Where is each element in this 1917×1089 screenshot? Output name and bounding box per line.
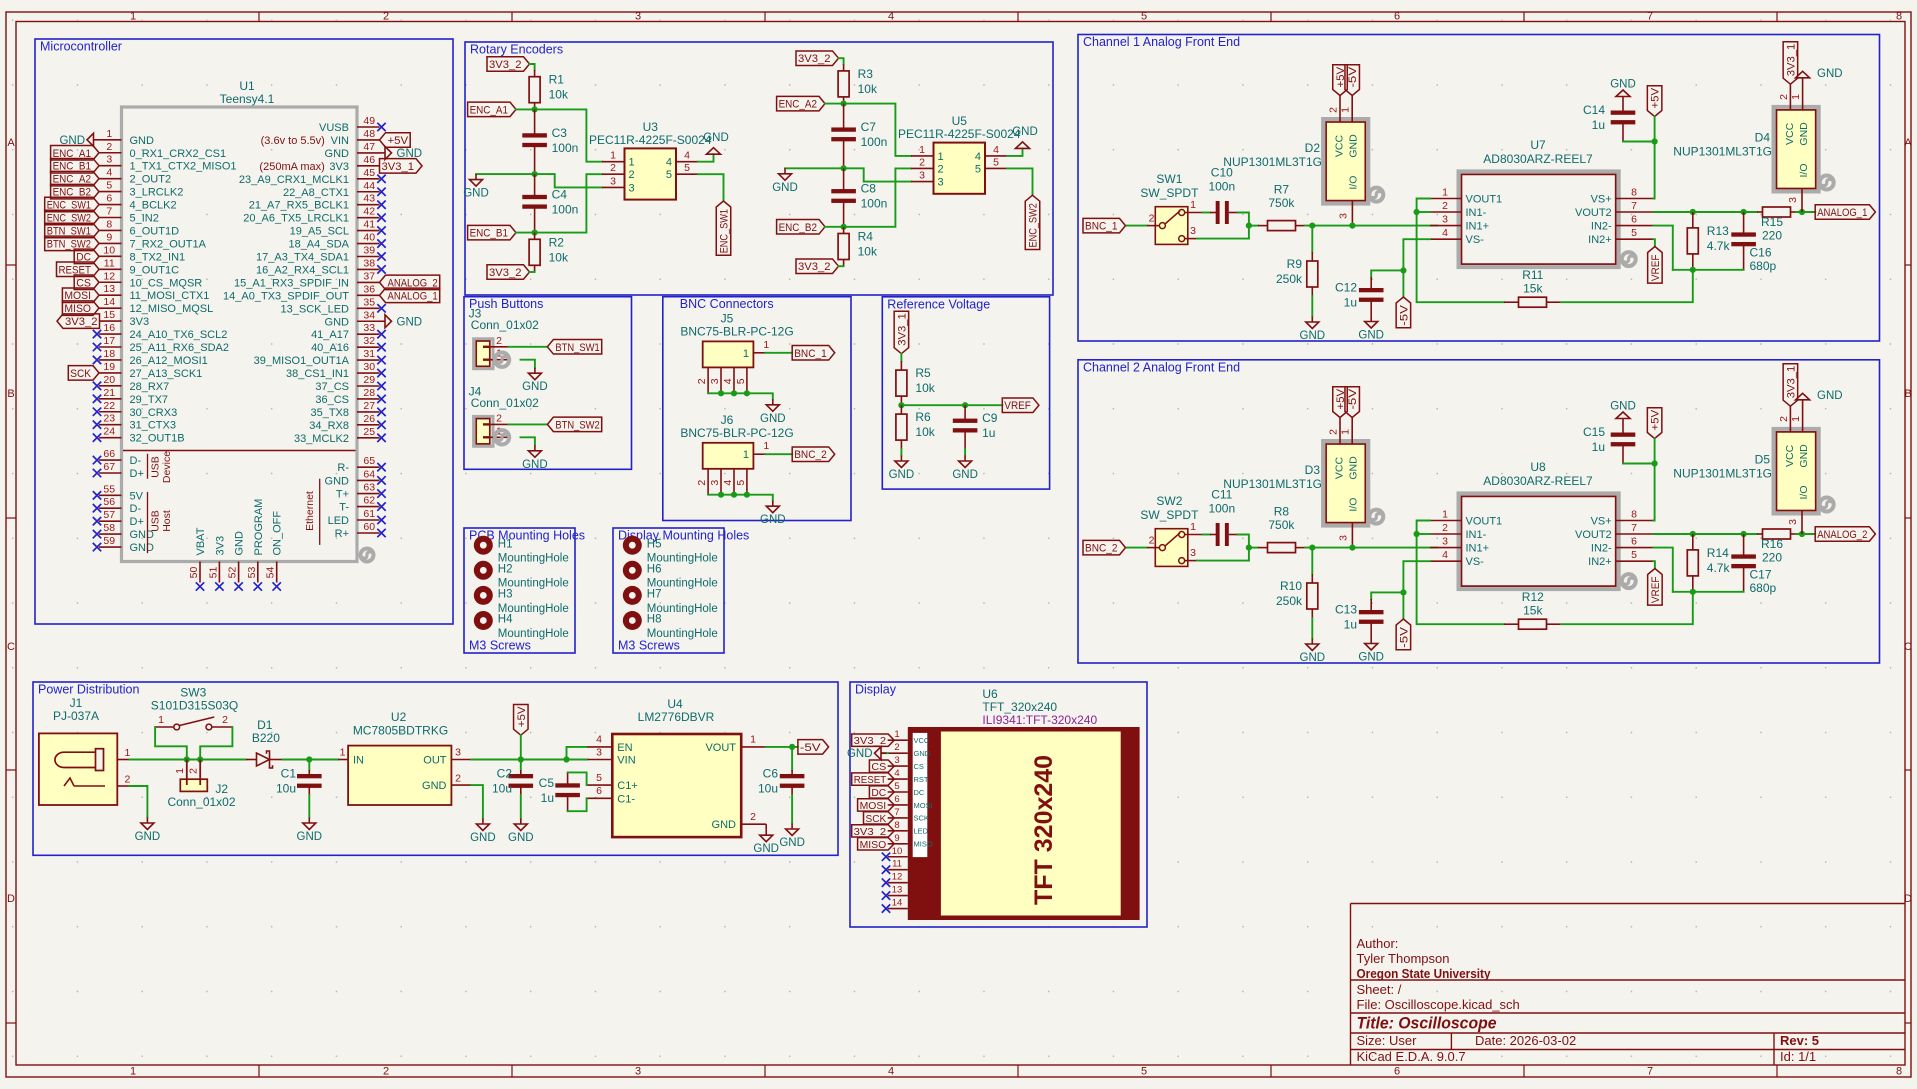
svg-text:IN: IN bbox=[353, 755, 364, 767]
svg-text:D1: D1 bbox=[257, 718, 273, 732]
wire C1 to gnd bbox=[308, 795, 310, 818]
svg-text:3: 3 bbox=[1337, 535, 1349, 541]
junction C17 top bbox=[1741, 531, 1747, 537]
junction D3 pin3 bbox=[1349, 545, 1355, 551]
U6 pin 4 RST bbox=[888, 778, 908, 780]
junction ENC_B bbox=[532, 230, 538, 236]
U1 pin 16 24_A10_TX6_SCL2 bbox=[99, 333, 122, 335]
svg-text:36: 36 bbox=[363, 283, 375, 295]
svg-text:ILI9341:TFT-320x240: ILI9341:TFT-320x240 bbox=[982, 713, 1097, 727]
hier label MISO at U6 pin 9 bbox=[858, 838, 895, 850]
junction J5 rail bbox=[731, 390, 737, 396]
svg-text:D3: D3 bbox=[1305, 463, 1321, 477]
svg-text:C13: C13 bbox=[1335, 603, 1357, 617]
power flag VREF bbox=[1648, 247, 1663, 284]
wire C10 to junction bbox=[1238, 213, 1249, 239]
svg-text:R5: R5 bbox=[915, 366, 931, 380]
junction after input cap bbox=[1246, 545, 1252, 551]
svg-text:Oregon State University: Oregon State University bbox=[1357, 966, 1492, 981]
junction ENC_A bbox=[532, 106, 538, 112]
wire R7 to amp bbox=[1305, 225, 1437, 227]
svg-text:1: 1 bbox=[1190, 199, 1196, 211]
svg-text:1: 1 bbox=[938, 151, 944, 163]
svg-text:Conn_01x02: Conn_01x02 bbox=[471, 396, 539, 410]
capacitor C5 1u flying bbox=[567, 772, 569, 787]
svg-text:R+: R+ bbox=[335, 528, 349, 540]
no-connect U1 pin 29 bbox=[377, 382, 385, 390]
svg-text:6_OUT1D: 6_OUT1D bbox=[130, 225, 180, 237]
svg-text:VCC: VCC bbox=[1334, 134, 1346, 157]
svg-text:2: 2 bbox=[919, 156, 925, 168]
U1 pin 26 34_RX8 bbox=[357, 424, 380, 426]
svg-text:1u: 1u bbox=[1344, 618, 1357, 632]
SW3 pin 1 bbox=[155, 726, 174, 728]
capacitor C3 100n bbox=[534, 109, 536, 137]
svg-text:J1: J1 bbox=[70, 696, 83, 710]
wire R15 to ANALOG_1 bbox=[1796, 211, 1815, 213]
svg-text:C: C bbox=[1904, 641, 1912, 653]
svg-text:1: 1 bbox=[743, 348, 749, 360]
U1 pin 57 D+ USB Host bbox=[99, 520, 122, 522]
svg-text:RST: RST bbox=[914, 775, 929, 784]
svg-text:GND: GND bbox=[1012, 126, 1038, 138]
svg-text:R4: R4 bbox=[858, 230, 874, 244]
svg-text:30: 30 bbox=[363, 361, 375, 373]
svg-text:13_SCK_LED: 13_SCK_LED bbox=[281, 303, 350, 315]
hier label ENC_SW1 at U1 pin 6 bbox=[45, 197, 99, 212]
svg-text:MISO: MISO bbox=[914, 840, 933, 849]
power GND at U1 pin 47 bbox=[380, 152, 386, 154]
svg-text:LED: LED bbox=[914, 827, 929, 836]
U1 pin 53 PROGRAM bottom bbox=[257, 562, 259, 583]
U3 pin 1 bbox=[602, 161, 625, 163]
svg-text:43: 43 bbox=[363, 193, 375, 205]
no-connect U1 pin 30 bbox=[377, 369, 385, 377]
svg-text:IN2+: IN2+ bbox=[1588, 556, 1612, 568]
svg-text:B: B bbox=[7, 388, 14, 400]
resistor R10 250k shunt bbox=[1311, 548, 1313, 574]
hier label CS at U6 pin 3 bbox=[869, 760, 894, 772]
svg-text:MOSI: MOSI bbox=[860, 800, 887, 812]
svg-text:ON_OFF: ON_OFF bbox=[272, 511, 284, 556]
svg-text:4: 4 bbox=[684, 150, 690, 162]
svg-text:3V3_1: 3V3_1 bbox=[1785, 44, 1797, 76]
svg-text:VREF: VREF bbox=[1650, 254, 1662, 281]
svg-text:VS-: VS- bbox=[1466, 234, 1485, 246]
resistor R12 15k feedback bbox=[1504, 623, 1519, 625]
D3 pin 1 to -5V bbox=[1351, 418, 1353, 445]
svg-text:SW3: SW3 bbox=[180, 686, 206, 700]
svg-text:1: 1 bbox=[743, 449, 749, 461]
svg-text:7: 7 bbox=[894, 807, 899, 818]
svg-text:C9: C9 bbox=[982, 411, 998, 425]
wire pin5 to ENC_SW bbox=[1007, 168, 1033, 195]
svg-text:1: 1 bbox=[610, 150, 616, 162]
svg-text:28: 28 bbox=[363, 387, 375, 399]
svg-text:6: 6 bbox=[894, 794, 899, 805]
global label 3V3_2 at U1 pin 15 bbox=[57, 314, 100, 329]
svg-text:6: 6 bbox=[1631, 536, 1637, 548]
svg-text:GND: GND bbox=[889, 469, 915, 481]
connector J3 body bbox=[474, 339, 493, 369]
svg-text:TFT 320x240: TFT 320x240 bbox=[1030, 755, 1058, 905]
svg-text:BNC75-BLR-PC-12G: BNC75-BLR-PC-12G bbox=[680, 426, 793, 440]
U1 pin 4 2_OUT2 bbox=[99, 178, 122, 180]
svg-text:GND: GND bbox=[1610, 79, 1636, 91]
svg-text:1: 1 bbox=[1790, 94, 1802, 100]
svg-text:D4: D4 bbox=[1755, 131, 1771, 145]
junction D2 pin3 bbox=[1349, 223, 1355, 229]
J4 pin 2 bbox=[490, 423, 509, 425]
hier label BTN_SW1 at U1 pin 8 bbox=[45, 223, 99, 238]
wire IN2+ to VREF bbox=[1653, 239, 1655, 246]
global label ENC_B bbox=[777, 220, 825, 235]
power GND at U1 pin 34 bbox=[380, 320, 386, 322]
junction J6 rail bbox=[718, 492, 724, 498]
capacitor C11 100n series bbox=[1210, 534, 1219, 536]
D4 pin 1 to GND bbox=[1802, 78, 1804, 110]
svg-text:GND: GND bbox=[522, 459, 548, 471]
svg-text:C1: C1 bbox=[281, 767, 297, 781]
svg-text:20: 20 bbox=[103, 374, 115, 386]
svg-text:PEC11R-4225F-S0024: PEC11R-4225F-S0024 bbox=[589, 133, 712, 147]
svg-text:3: 3 bbox=[1190, 547, 1196, 559]
svg-text:GND: GND bbox=[130, 542, 155, 554]
J1 pin 2 bbox=[117, 785, 129, 787]
U1 pin 64 GND Ethernet bbox=[357, 479, 380, 481]
wire pin4 to GND bbox=[1007, 148, 1023, 156]
svg-text:4: 4 bbox=[975, 151, 981, 163]
junction gnd rail bbox=[532, 171, 538, 177]
U2 pin 1 IN bbox=[338, 759, 348, 761]
svg-text:C7: C7 bbox=[861, 120, 877, 134]
svg-text:750k: 750k bbox=[1268, 196, 1295, 210]
junction C1 top bbox=[306, 756, 312, 762]
J3 pin1 no-erc marker bbox=[495, 353, 509, 367]
svg-text:RESET: RESET bbox=[854, 774, 887, 786]
svg-text:18_A4_SDA: 18_A4_SDA bbox=[288, 239, 349, 251]
power flag 3V3_1 above D5 bbox=[1783, 364, 1798, 407]
svg-text:Host: Host bbox=[161, 510, 173, 532]
U8 pin 5 IN2+ bbox=[1616, 560, 1654, 562]
svg-text:GND: GND bbox=[914, 749, 931, 758]
no-connect U1 pin 32 bbox=[377, 343, 385, 351]
power flag +5V above D3 bbox=[1333, 387, 1348, 418]
U6 pin 12 no-connect bbox=[888, 882, 908, 884]
svg-text:NUP1301ML3T1G: NUP1301ML3T1G bbox=[1223, 477, 1322, 491]
U1 pin 62 T- Ethernet bbox=[357, 506, 380, 508]
global label 3V3_2 top (R3) bbox=[796, 51, 839, 65]
svg-text:GND: GND bbox=[1817, 390, 1843, 402]
svg-text:1u: 1u bbox=[1344, 296, 1357, 310]
svg-text:64: 64 bbox=[363, 468, 375, 480]
U1 pin 32 40_A16 bbox=[357, 346, 380, 348]
svg-text:C3: C3 bbox=[552, 126, 568, 140]
connector J2 body bbox=[180, 779, 207, 791]
power GND below J4 bbox=[534, 445, 536, 451]
svg-text:15k: 15k bbox=[1523, 282, 1543, 296]
wire J4 pin2 to label bbox=[509, 423, 548, 425]
svg-text:Conn_01x02: Conn_01x02 bbox=[471, 318, 539, 332]
svg-text:3: 3 bbox=[709, 378, 721, 384]
svg-text:3: 3 bbox=[894, 755, 899, 766]
svg-text:1: 1 bbox=[750, 734, 756, 746]
svg-text:24_A10_TX6_SCL2: 24_A10_TX6_SCL2 bbox=[130, 329, 228, 341]
global label 3V3_2 bottom bbox=[487, 265, 530, 280]
hier label ENC_B2 at U1 pin 5 bbox=[51, 184, 99, 199]
power GND above C14 bbox=[1616, 90, 1630, 97]
mounting hole H8 bbox=[623, 611, 642, 630]
svg-text:R16: R16 bbox=[1761, 537, 1783, 551]
wire switch pin3 to junction bbox=[1197, 238, 1249, 240]
junction VS- / C12 bbox=[1400, 267, 1406, 273]
U1 pin 10 8_TX2_IN1 bbox=[99, 255, 122, 257]
svg-text:2: 2 bbox=[696, 480, 708, 486]
SW1 lever bbox=[1165, 211, 1180, 224]
svg-text:9_OUT1C: 9_OUT1C bbox=[130, 264, 180, 276]
SW3 pin 2 bbox=[212, 726, 233, 728]
svg-text:C8: C8 bbox=[861, 182, 877, 196]
SW2 pin 3 bbox=[1185, 560, 1197, 562]
D2 no-erc marker bbox=[1369, 188, 1383, 202]
svg-text:53: 53 bbox=[246, 567, 258, 579]
svg-text:C17: C17 bbox=[1750, 568, 1772, 582]
svg-text:BNC_2: BNC_2 bbox=[794, 449, 827, 461]
D3 pin 2 to +5V bbox=[1339, 418, 1341, 445]
junction C2/+5V bbox=[518, 756, 524, 762]
svg-text:22_A8_CTX1: 22_A8_CTX1 bbox=[283, 187, 349, 199]
svg-text:IN1+: IN1+ bbox=[1466, 543, 1490, 555]
mounting hole H7 bbox=[623, 586, 642, 605]
svg-text:GND: GND bbox=[470, 832, 496, 844]
svg-text:7: 7 bbox=[1647, 11, 1653, 23]
svg-text:GND: GND bbox=[1798, 122, 1810, 146]
no-connect U1 pin 38 bbox=[377, 265, 385, 273]
svg-text:1: 1 bbox=[174, 768, 186, 774]
diode array D3 body bbox=[1323, 441, 1368, 526]
U1 USB Host group label bbox=[147, 492, 149, 553]
U7 pin 4 VS- bbox=[1430, 238, 1462, 240]
svg-text:VCC: VCC bbox=[1784, 444, 1796, 467]
U1 pin 21 29_TX7 bbox=[99, 398, 122, 400]
svg-text:100n: 100n bbox=[861, 135, 888, 149]
svg-text:21_A7_RX5_BCLK1: 21_A7_RX5_BCLK1 bbox=[249, 200, 349, 212]
svg-text:Power Distribution: Power Distribution bbox=[38, 683, 139, 697]
svg-text:39_MISO1_OUT1A: 39_MISO1_OUT1A bbox=[254, 355, 350, 367]
U1 pin 17 25_A11_RX6_SDA2 bbox=[99, 346, 122, 348]
svg-text:TFT_320x240: TFT_320x240 bbox=[982, 700, 1057, 714]
svg-text:SCK: SCK bbox=[914, 814, 929, 823]
U5 pin 3 bbox=[911, 181, 934, 183]
svg-text:59: 59 bbox=[103, 535, 115, 547]
switch SW1 body bbox=[1155, 207, 1188, 245]
svg-text:ENC_B2: ENC_B2 bbox=[779, 222, 817, 234]
svg-text:Reference Voltage: Reference Voltage bbox=[887, 297, 990, 311]
svg-text:U5: U5 bbox=[952, 114, 968, 128]
wire pin4 to GND bbox=[698, 154, 714, 162]
svg-text:Rotary Encoders: Rotary Encoders bbox=[470, 43, 563, 57]
wire R11 to output rail bbox=[1561, 270, 1693, 302]
wire J6 pin1 to label bbox=[765, 453, 792, 455]
svg-text:10: 10 bbox=[892, 846, 903, 857]
mounting hole H1 bbox=[474, 536, 493, 555]
svg-text:4: 4 bbox=[596, 734, 602, 746]
no-connect U1 pin 33 bbox=[377, 330, 385, 338]
no-connect U1 pin 40 bbox=[377, 239, 385, 247]
U8 pin 7 VOUT2 bbox=[1616, 533, 1654, 535]
svg-text:Size: User: Size: User bbox=[1357, 1033, 1418, 1048]
junction IN1- feedback bbox=[1414, 209, 1420, 215]
svg-text:R6: R6 bbox=[915, 410, 931, 424]
svg-text:VOUT1: VOUT1 bbox=[1466, 194, 1503, 206]
U1 pin 30 38_CS1_IN1 bbox=[357, 372, 380, 374]
svg-text:2_OUT2: 2_OUT2 bbox=[130, 174, 172, 186]
power GND at encoder pin 4 bbox=[1016, 142, 1030, 149]
svg-text:30_CRX3: 30_CRX3 bbox=[130, 407, 178, 419]
power GND below R6 bbox=[900, 456, 902, 462]
power GND below J6 bbox=[772, 501, 774, 507]
svg-text:10k: 10k bbox=[549, 250, 569, 264]
junction R9 top bbox=[1309, 223, 1315, 229]
U5 pin 4 bbox=[985, 155, 1007, 157]
svg-text:1: 1 bbox=[763, 440, 769, 452]
U1 pin 25 33_MCLK2 bbox=[357, 437, 380, 439]
U1 pin 41 19_A5_SCL bbox=[357, 230, 380, 232]
sheet box Channel 2 Analog Front End bbox=[1078, 360, 1880, 663]
SW2 lever bbox=[1165, 533, 1180, 546]
no-connect U1 pin 41 bbox=[377, 226, 385, 234]
svg-text:56: 56 bbox=[103, 496, 115, 508]
U2 pin 2 GND bbox=[451, 784, 471, 786]
svg-text:Date: 2026-03-02: Date: 2026-03-02 bbox=[1475, 1033, 1576, 1048]
svg-text:ANALOG_2: ANALOG_2 bbox=[1817, 529, 1867, 541]
U8 pin 6 IN2- bbox=[1616, 547, 1654, 549]
resistor R15 220 output bbox=[1757, 211, 1763, 213]
svg-text:4: 4 bbox=[888, 1066, 894, 1078]
U1 pin 56 D- USB Host bbox=[99, 507, 122, 509]
wire ENC_A row bbox=[825, 104, 911, 156]
svg-text:5: 5 bbox=[1631, 227, 1637, 239]
svg-text:H3: H3 bbox=[498, 589, 513, 601]
U1 pin 28 36_CS bbox=[357, 398, 380, 400]
SW2 pin 1 bbox=[1185, 534, 1203, 536]
hier label DC at U6 pin 5 bbox=[869, 786, 894, 798]
sheet box Channel 1 Analog Front End bbox=[1078, 35, 1880, 342]
power flag +5V at U7 VS+ bbox=[1647, 86, 1662, 117]
wire R9 to gnd bbox=[1311, 296, 1313, 317]
U6 pin 11 no-connect bbox=[888, 869, 908, 871]
svg-text:Channel 2 Analog Front End: Channel 2 Analog Front End bbox=[1083, 360, 1240, 374]
U1 pin 52 GND bottom bbox=[238, 562, 240, 583]
svg-text:B: B bbox=[1904, 388, 1911, 400]
svg-text:5: 5 bbox=[975, 163, 981, 175]
svg-text:GND: GND bbox=[135, 831, 161, 843]
svg-text:3: 3 bbox=[1787, 519, 1799, 525]
svg-text:D+: D+ bbox=[130, 516, 144, 528]
connector J5 body bbox=[703, 341, 754, 367]
svg-text:MOSI: MOSI bbox=[914, 801, 933, 810]
svg-text:2: 2 bbox=[455, 773, 461, 785]
svg-text:C4: C4 bbox=[552, 187, 568, 201]
U1 pin 1 GND bbox=[99, 139, 122, 141]
J5 pin 1 bbox=[753, 352, 765, 354]
svg-text:SCK: SCK bbox=[866, 813, 887, 825]
svg-text:100n: 100n bbox=[1208, 180, 1235, 194]
power GND below R9 bbox=[1311, 317, 1313, 323]
U6 pin 6 MOSI bbox=[888, 804, 908, 806]
capacitor C16 bbox=[1743, 212, 1745, 236]
svg-text:BTN_SW1: BTN_SW1 bbox=[555, 342, 599, 354]
svg-text:3: 3 bbox=[455, 747, 461, 759]
feedback wire VOUT1/IN1- to R11 row bbox=[1417, 199, 1504, 303]
resistor R13 4.7k bbox=[1692, 212, 1694, 228]
svg-text:IN2+: IN2+ bbox=[1588, 234, 1612, 246]
no-connect U1 pin 23 bbox=[93, 421, 101, 429]
svg-text:23: 23 bbox=[103, 413, 115, 425]
switch SW2 body bbox=[1155, 529, 1188, 567]
svg-text:H4: H4 bbox=[498, 614, 513, 626]
svg-text:8: 8 bbox=[1631, 509, 1637, 521]
svg-text:8_TX2_IN1: 8_TX2_IN1 bbox=[130, 251, 186, 263]
power GND at U6 pin 2 bbox=[882, 752, 888, 754]
encoder U3 body bbox=[625, 148, 677, 199]
svg-text:GND: GND bbox=[59, 135, 85, 147]
U4 pin 1 VOUT bbox=[741, 746, 765, 748]
svg-text:C1+: C1+ bbox=[617, 780, 638, 792]
power GND at U1 pin 1 bbox=[94, 139, 100, 141]
svg-text:4.7k: 4.7k bbox=[1707, 239, 1731, 253]
svg-text:3V3: 3V3 bbox=[329, 161, 349, 173]
hier label MOSI at U6 pin 6 bbox=[858, 799, 895, 811]
D5 pin 3 bbox=[1801, 511, 1803, 535]
svg-text:R-: R- bbox=[337, 462, 349, 474]
svg-text:H6: H6 bbox=[647, 564, 662, 576]
svg-text:3: 3 bbox=[938, 177, 944, 189]
svg-text:60: 60 bbox=[363, 521, 375, 533]
hier label CS at U1 pin 12 bbox=[74, 275, 99, 290]
wire R6 to gnd bbox=[900, 449, 902, 456]
svg-text:GND: GND bbox=[234, 531, 246, 556]
junction C6 top bbox=[789, 744, 795, 750]
wire C14 to +5V junction bbox=[1623, 142, 1655, 199]
U6 pin 10 no-connect bbox=[888, 856, 908, 858]
U1 pin 61 LED Ethernet bbox=[357, 519, 380, 521]
svg-text:-5V: -5V bbox=[800, 742, 821, 754]
hier label SCK at U6 pin 7 bbox=[864, 812, 895, 824]
J6 pin 2 bbox=[707, 469, 709, 495]
svg-text:ENC_SW2: ENC_SW2 bbox=[1028, 203, 1040, 247]
svg-text:1u: 1u bbox=[1592, 118, 1605, 132]
U8 no-erc marker bbox=[1622, 574, 1636, 588]
J5 pin 4 bbox=[733, 367, 735, 393]
svg-text:U8: U8 bbox=[1530, 460, 1546, 474]
svg-text:3: 3 bbox=[919, 170, 925, 182]
junction R13 top bbox=[1690, 209, 1696, 215]
svg-text:GND: GND bbox=[1610, 401, 1636, 413]
wire VS- to -5V bbox=[1403, 561, 1430, 619]
svg-text:VREF: VREF bbox=[1650, 576, 1662, 603]
svg-text:2: 2 bbox=[1442, 200, 1448, 212]
global label ENC_B bbox=[468, 225, 516, 240]
svg-text:8: 8 bbox=[1896, 11, 1902, 23]
svg-text:34: 34 bbox=[363, 309, 375, 321]
svg-text:Conn_01x02: Conn_01x02 bbox=[167, 795, 235, 809]
no-connect U1 pin 43 bbox=[377, 201, 385, 209]
svg-text:13: 13 bbox=[103, 283, 115, 295]
U1 pin 23 31_CTX3 bbox=[99, 424, 122, 426]
svg-text:VCC: VCC bbox=[1334, 456, 1346, 479]
resistor R2 10k bbox=[534, 233, 536, 240]
